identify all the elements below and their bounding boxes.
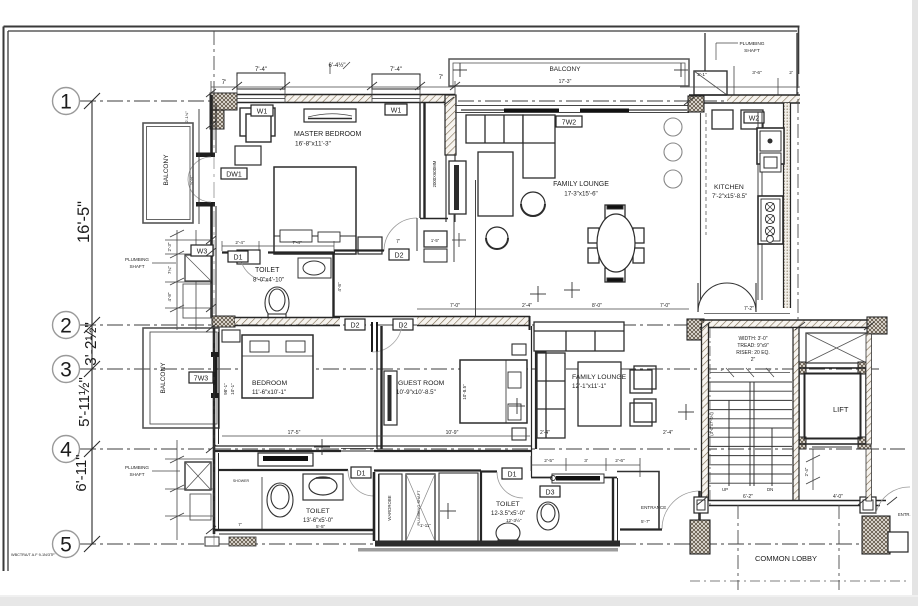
wardrobe foyer (449, 161, 466, 214)
shaft box with diagonal (694, 71, 727, 95)
toilet1 dim row (222, 241, 334, 251)
svg-text:2'-4": 2'-4" (804, 467, 809, 476)
column stair top-right (867, 317, 887, 334)
door DW1 jambs (196, 153, 215, 158)
wall toilet3 right / wardrobe left (374, 472, 379, 541)
grid bubble 2 (53, 312, 80, 339)
svg-text:16'-5": 16'-5" (75, 201, 93, 243)
svg-text:2'-4": 2'-4" (235, 240, 245, 245)
label W1 left (251, 105, 273, 116)
column master top-left corner (210, 93, 237, 110)
grid line 5 (80, 543, 905, 545)
lobby vertical dashdot lines (710, 328, 839, 590)
svg-text:11'-6"x10'-1": 11'-6"x10'-1" (252, 389, 286, 396)
svg-text:ENTR.: ENTR. (898, 512, 911, 517)
svg-text:TOILET: TOILET (306, 508, 330, 515)
svg-text:TOILET: TOILET (255, 267, 280, 274)
lift lower dim (806, 449, 820, 490)
svg-text:TREAD: 9"x9": TREAD: 9"x9" (737, 343, 769, 349)
svg-text:2'-1¾": 2'-1¾" (184, 111, 189, 123)
svg-text:7'-2": 7'-2" (744, 306, 754, 312)
balcony upper-left (143, 123, 193, 223)
wardrobe strip (379, 474, 402, 541)
wall unit left side (212, 95, 217, 250)
label D3 (540, 486, 560, 497)
gray app background bottom strip (0, 597, 918, 606)
svg-text:7'-4": 7'-4" (292, 240, 302, 245)
svg-text:PLUMBING SHAFT: PLUMBING SHAFT (416, 490, 421, 526)
svg-text:2000X600MM: 2000X600MM (432, 160, 437, 187)
centerline mark passage (440, 503, 456, 519)
svg-text:4: 4 (60, 439, 72, 462)
svg-text:ENTRANCE: ENTRANCE (641, 505, 666, 510)
guest bed (460, 360, 527, 423)
wall left below grid4 (214, 449, 219, 534)
lounge boundary second line (453, 214, 455, 262)
toilet2 top wall (481, 470, 497, 472)
svg-text:BEDROOM: BEDROOM (252, 380, 287, 387)
svg-text:7'-4": 7'-4" (390, 67, 402, 73)
lift shaft walls (799, 368, 866, 444)
wall family lounge top with sliding doors 7W2 (455, 106, 689, 113)
column lounge/kitchen lower corner (687, 319, 704, 340)
svg-text:1'-5": 1'-5" (431, 238, 440, 243)
wall grid2 hatched left (212, 316, 340, 327)
armchair master top-left (240, 108, 275, 142)
lobby wall bottom of stair (702, 501, 886, 506)
label 7W3 (189, 372, 213, 383)
balcony dim line (198, 109, 200, 224)
svg-text:2': 2' (789, 70, 793, 76)
toilet1 WC (265, 287, 289, 319)
svg-text:8'-0"x4'-10": 8'-0"x4'-10" (253, 277, 284, 284)
entrance door arc (662, 491, 700, 529)
svg-text:UP: UP (722, 487, 728, 492)
svg-text:D2: D2 (351, 323, 360, 330)
svg-text:WARDROBE: WARDROBE (387, 495, 392, 520)
wall grid4 long (215, 446, 531, 451)
svg-text:FAMILY LOUNGE: FAMILY LOUNGE (572, 374, 627, 381)
svg-text:D2: D2 (399, 323, 408, 330)
svg-text:DN: DN (767, 487, 773, 492)
vertical dashdot top right (797, 74, 799, 320)
toilet3 WC (267, 483, 293, 517)
svg-text:3': 3' (584, 458, 588, 464)
bench master right (358, 237, 382, 254)
TV console lounge2 (537, 352, 546, 428)
planter circles right (664, 118, 682, 188)
centerline mark above lounge2 (530, 286, 546, 302)
toilet1 basin (298, 258, 331, 278)
family lounge right boundary line (475, 180, 477, 318)
svg-text:10'-8.5": 10'-8.5" (462, 384, 467, 400)
svg-text:2'-3": 2'-3" (167, 242, 172, 251)
window W1 frame box left (237, 73, 285, 89)
svg-text:98'-1": 98'-1" (223, 383, 228, 395)
grid line 1 (80, 100, 800, 102)
svg-text:8'-0": 8'-0" (592, 303, 602, 309)
svg-text:W1: W1 (391, 108, 402, 115)
kitchen sink (757, 128, 784, 172)
border frame left (4, 27, 9, 572)
rug master (235, 146, 261, 165)
kitchen double door bottom (698, 283, 756, 312)
svg-text:7': 7' (222, 80, 226, 86)
svg-text:2": 2" (751, 357, 756, 363)
svg-text:5'-11½": 5'-11½" (76, 377, 93, 427)
svg-text:GUEST ROOM: GUEST ROOM (398, 380, 445, 387)
svg-text:RISER: 20 EQ.: RISER: 20 EQ. (736, 350, 770, 356)
door DW1 double swing arcs (188, 157, 211, 180)
wall grid2 end stub (529, 316, 531, 330)
svg-text:17-3"x15'-6": 17-3"x15'-6" (564, 191, 597, 198)
svg-text:2'-4": 2'-4" (663, 430, 673, 436)
lounge2 bottom wall / vanity row (531, 477, 617, 479)
border frame top (4, 27, 800, 32)
unit bottom wall right segment (620, 528, 662, 530)
vanity counter dark (551, 474, 605, 483)
svg-text:2'-6": 2'-6" (615, 458, 625, 464)
svg-text:4'-0": 4'-0" (833, 494, 843, 500)
svg-text:2': 2' (721, 368, 724, 372)
lounge2 sofa left (537, 353, 565, 438)
lobby door columns (694, 497, 876, 513)
shaft box at left wall (185, 255, 211, 281)
svg-text:WBCTRA/T A.F 9-1N/3TF': WBCTRA/T A.F 9-1N/3TF' (11, 553, 56, 557)
svg-text:D2: D2 (395, 253, 404, 260)
wall master bedroom top (211, 95, 455, 103)
svg-text:2'-5": 2'-5" (544, 458, 554, 464)
balcony lower-left (143, 328, 219, 428)
svg-text:7': 7' (439, 75, 443, 81)
entry arc right (876, 487, 910, 513)
vertical dashdot grid at master left (213, 31, 215, 95)
svg-text:2'-1": 2'-1" (697, 72, 707, 78)
toilet2 left wall (480, 471, 482, 541)
kitchen left counter (701, 113, 707, 300)
svg-text:BALCONY: BALCONY (160, 362, 167, 394)
gray app background right strip (912, 0, 918, 606)
wall unit left lower with balcony door (211, 328, 219, 449)
dim row above grid4 (222, 435, 530, 437)
stair/lift divider wall (793, 328, 799, 501)
lounge2 coffee table (578, 362, 621, 426)
top-right dim row (697, 70, 793, 78)
left secondary dim chain upper (165, 230, 211, 330)
svg-text:5'-7": 5'-7" (641, 519, 651, 524)
lift east wall lower (866, 449, 872, 501)
svg-text:2: 2 (60, 315, 72, 338)
stair up dn labels (722, 487, 773, 492)
lobby below columns (690, 516, 908, 554)
label W2 (744, 112, 764, 123)
vertical dashdot through left wall (213, 95, 215, 545)
grid bubble 3 (53, 356, 80, 383)
svg-text:7': 7' (396, 239, 400, 245)
grid line 2 (80, 324, 880, 326)
svg-text:D3: D3 (546, 490, 555, 497)
lounge2 armchair 1 (630, 366, 656, 393)
svg-text:KITCHEN: KITCHEN (714, 184, 744, 191)
svg-text:7': 7' (238, 522, 242, 527)
lounge2 armchair 2 (630, 399, 656, 426)
wall grid2 hatched center (334, 317, 530, 326)
misc tick marks (206, 82, 897, 534)
svg-text:17'-5": 17'-5" (288, 430, 301, 436)
svg-text:5'-5": 5'-5" (316, 524, 326, 529)
plumbing shaft top-right outline (705, 33, 797, 95)
top dimension row master (222, 62, 443, 86)
svg-text:6'-11": 6'-11" (73, 454, 90, 491)
toilet1 door D1 arc (240, 253, 268, 281)
door leaves below grid2 wall (372, 322, 377, 352)
svg-text:DW1: DW1 (226, 172, 242, 179)
svg-text:1'-11": 1'-11" (420, 523, 431, 528)
kitchen top wall (689, 95, 800, 103)
svg-text:7'-0": 7'-0" (660, 303, 670, 309)
door D1 toilet3 (348, 470, 374, 496)
toilet2 bottom wall (375, 541, 620, 547)
kitchen counter right appliances line (758, 112, 762, 300)
svg-text:SHAFT: SHAFT (129, 264, 144, 269)
kitchen stove (758, 196, 783, 244)
svg-text:2': 2' (769, 368, 772, 372)
lift machine box (806, 333, 867, 363)
family lounge coffee table (478, 152, 513, 216)
doors D2 in grid2 wall (345, 319, 365, 330)
svg-text:17'-3": 17'-3" (559, 79, 572, 85)
label W3 (191, 245, 213, 256)
foyer cabinet (424, 231, 466, 262)
left secondary dim chain lower (165, 440, 214, 540)
svg-text:10'-1": 10'-1" (230, 383, 235, 395)
dim row above grid2 wall (417, 308, 689, 310)
toilet1 top wall (222, 251, 335, 253)
svg-text:6'-2": 6'-2" (743, 494, 753, 500)
toilet3 bottom wall (214, 530, 375, 534)
svg-text:D1: D1 (234, 255, 243, 262)
kitchen right wall (784, 103, 791, 308)
svg-text:4'-8": 4'-8" (337, 282, 342, 292)
svg-text:(3'-0"x7'-4¼): (3'-0"x7'-4¼) (709, 412, 714, 436)
grid bubble 1 (53, 88, 80, 115)
label W1 right (385, 104, 407, 115)
svg-text:7'-4": 7'-4" (255, 67, 267, 73)
toilet2 right wall (613, 478, 618, 541)
svg-text:BALCONY: BALCONY (163, 154, 170, 186)
svg-text:10'-9"x10'-8.5": 10'-9"x10'-8.5" (396, 389, 436, 396)
door D1 toilet2 (497, 472, 523, 498)
grid line 3 (80, 368, 880, 370)
label DW1 (221, 168, 247, 179)
svg-text:2'-4": 2'-4" (522, 303, 532, 309)
family lounge sofa L-shape (466, 115, 555, 178)
lift right wall hatch (866, 334, 872, 444)
entrance vestibule outline (617, 472, 659, 530)
wall guest/lounge divider (532, 326, 537, 477)
svg-text:3'-2½": 3'-2½" (83, 322, 100, 366)
stair block top wall (700, 320, 880, 328)
grid line 4 (80, 448, 905, 450)
svg-text:D1: D1 (357, 471, 366, 478)
bed master (274, 167, 356, 254)
svg-text:12'-1"x11'-1": 12'-1"x11'-1" (572, 383, 606, 390)
plumbing shaft box lower middle (406, 474, 435, 541)
svg-text:7¼": 7¼" (167, 266, 172, 274)
stair left wall (702, 323, 709, 501)
guest nightstand bottom (512, 428, 526, 440)
svg-text:TOILET: TOILET (496, 501, 520, 508)
window W1 frame box right (372, 74, 420, 89)
passage cell (439, 473, 478, 541)
lounge2 sofa top (534, 322, 624, 351)
bedroom corner shelf (222, 330, 240, 342)
lobby bottom dashed line (690, 580, 906, 582)
toilet1 right wall (332, 253, 334, 318)
svg-text:W1: W1 (257, 109, 268, 116)
svg-text:12-3.5"x5'-0": 12-3.5"x5'-0" (491, 511, 525, 517)
border frame right edge (798, 27, 800, 74)
svg-text:12'-3½": 12'-3½" (506, 517, 522, 523)
plumbing shaft text left lower (125, 465, 149, 477)
svg-text:SHOWER: SHOWER (233, 479, 250, 483)
svg-text:16'-8"x11'-3": 16'-8"x11'-3" (295, 141, 332, 148)
svg-text:SHAFT: SHAFT (744, 48, 760, 54)
wall toilet1 to foyer (334, 249, 384, 251)
left dimension line (84, 93, 100, 552)
svg-text:WIDTH: 3'-0": WIDTH: 3'-0" (738, 336, 767, 342)
guest room wardrobe (384, 371, 397, 425)
stair stringer (729, 382, 772, 486)
svg-text:PLUMBING: PLUMBING (125, 257, 149, 262)
svg-text:7W2: 7W2 (562, 120, 577, 127)
svg-text:7'-0": 7'-0" (450, 303, 460, 309)
svg-text:FAMILY LOUNGE: FAMILY LOUNGE (553, 181, 609, 188)
door D2 foyer arc (384, 218, 417, 251)
lobby dims (743, 494, 843, 500)
duct boxes below kitchen top wall (712, 110, 763, 129)
lift door bottom (806, 444, 858, 447)
svg-text:MASTER BEDROOM: MASTER BEDROOM (294, 131, 361, 138)
wall over cells (374, 469, 481, 471)
foyer: master right wall (420, 103, 448, 219)
stair dim line (710, 368, 790, 377)
label D1 toilet3 (351, 467, 371, 478)
svg-text:PLUMBING: PLUMBING (125, 465, 149, 470)
dims above vanity (544, 458, 625, 464)
guest nightstand top (512, 344, 526, 355)
grid bubble 4 (53, 436, 80, 463)
svg-text:D1: D1 (508, 472, 517, 479)
svg-text:5: 5 (60, 534, 72, 557)
toilet3 top wall (219, 469, 348, 471)
svg-text:COMMON LOBBY: COMMON LOBBY (755, 554, 817, 563)
svg-text:PLUMBING: PLUMBING (739, 41, 764, 47)
family lounge round chair 2 (486, 227, 508, 249)
balcony top outline (449, 59, 689, 86)
console table below grid4 (258, 453, 313, 466)
svg-text:1: 1 (60, 91, 72, 114)
svg-text:10'-9": 10'-9" (446, 430, 459, 436)
dining table (588, 205, 644, 282)
svg-text:7W3: 7W3 (194, 376, 209, 383)
svg-text:BALCONY: BALCONY (549, 66, 581, 73)
foyer hatched wall right (445, 95, 456, 155)
toilet2 WC (496, 523, 520, 545)
svg-text:4'-8": 4'-8" (167, 292, 172, 301)
svg-text:SHAFT: SHAFT (129, 472, 144, 477)
toilet3 vanity (303, 474, 343, 500)
wall bedroom/guest divider (377, 326, 382, 449)
family lounge round chair 1 (521, 192, 545, 216)
column family lounge / kitchen corner (688, 96, 704, 112)
plumbing shaft left wall annotations (125, 257, 149, 269)
nightstand master left (237, 250, 260, 264)
plumbing shaft label top (739, 41, 764, 54)
svg-text:7'-2"x15'-8.5": 7'-2"x15'-8.5" (712, 194, 747, 200)
shaft box left lower (185, 462, 211, 490)
stair treads (709, 382, 792, 483)
svg-text:3: 3 (60, 359, 72, 382)
label 7W2 (556, 116, 582, 127)
label D2 foyer (389, 249, 409, 260)
svg-text:2'-4": 2'-4" (540, 430, 550, 436)
label D1 toilet1 (228, 251, 248, 262)
columns around lift (793, 362, 806, 374)
centerline marks (314, 282, 694, 455)
toilet2 basin (537, 502, 559, 530)
wall left below toilet level (212, 250, 217, 318)
svg-text:W3: W3 (197, 249, 208, 256)
svg-text:3'-6": 3'-6" (752, 70, 762, 76)
dresser master top (304, 109, 356, 122)
balcony centerline marks (453, 63, 688, 77)
grid bubble 5 (53, 531, 80, 558)
bedroom bed (242, 335, 313, 398)
svg-text:6'-4½": 6'-4½" (329, 62, 346, 69)
stair texts (736, 336, 770, 363)
svg-text:LIFT: LIFT (833, 405, 849, 414)
hatch below bottom wall (229, 537, 256, 546)
